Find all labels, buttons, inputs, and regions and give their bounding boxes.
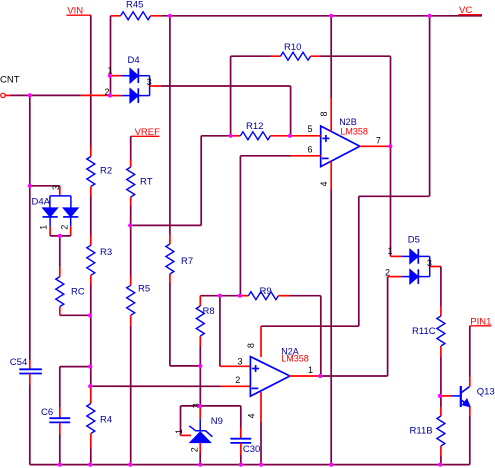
svg-text:LM358: LM358 — [281, 353, 309, 363]
svg-text:LM358: LM358 — [340, 126, 368, 136]
svg-text:R12: R12 — [246, 121, 263, 132]
svg-text:2: 2 — [385, 268, 390, 278]
svg-text:5: 5 — [308, 124, 313, 134]
svg-text:R11C: R11C — [412, 326, 436, 337]
svg-text:2: 2 — [190, 447, 200, 452]
svg-text:D4: D4 — [128, 55, 140, 66]
svg-text:7: 7 — [376, 136, 381, 146]
svg-text:C30: C30 — [243, 444, 260, 455]
svg-text:R8: R8 — [203, 306, 215, 317]
svg-text:3: 3 — [51, 185, 61, 190]
svg-text:8: 8 — [246, 343, 256, 348]
svg-text:N9: N9 — [211, 416, 223, 427]
svg-text:D5: D5 — [408, 235, 420, 246]
svg-text:C6: C6 — [41, 407, 53, 418]
svg-text:D4A: D4A — [32, 197, 51, 208]
svg-text:3: 3 — [238, 356, 243, 366]
svg-text:R11B: R11B — [410, 426, 433, 437]
svg-text:R45: R45 — [126, 0, 143, 11]
svg-text:2: 2 — [235, 375, 240, 385]
svg-text:R9: R9 — [260, 286, 272, 297]
svg-text:3: 3 — [427, 258, 432, 268]
svg-text:Q13: Q13 — [477, 387, 495, 398]
svg-text:1: 1 — [388, 246, 393, 256]
svg-text:1: 1 — [174, 429, 184, 434]
svg-text:1: 1 — [308, 365, 313, 375]
svg-text:RC: RC — [71, 287, 85, 298]
svg-text:C54: C54 — [10, 357, 27, 368]
svg-text:2: 2 — [60, 225, 70, 230]
svg-text:3: 3 — [147, 77, 152, 87]
svg-text:R5: R5 — [138, 284, 150, 295]
svg-text:R3: R3 — [100, 247, 112, 258]
svg-text:R7: R7 — [181, 256, 193, 267]
svg-text:RT: RT — [140, 177, 153, 188]
svg-text:8: 8 — [319, 111, 329, 116]
svg-text:R2: R2 — [100, 165, 112, 176]
svg-text:4: 4 — [319, 181, 329, 186]
svg-text:1: 1 — [39, 225, 49, 230]
svg-text:R4: R4 — [100, 414, 112, 425]
svg-text:4: 4 — [247, 413, 257, 418]
svg-text:6: 6 — [308, 144, 313, 154]
svg-text:CNT: CNT — [0, 74, 20, 85]
svg-text:R10: R10 — [284, 42, 301, 53]
